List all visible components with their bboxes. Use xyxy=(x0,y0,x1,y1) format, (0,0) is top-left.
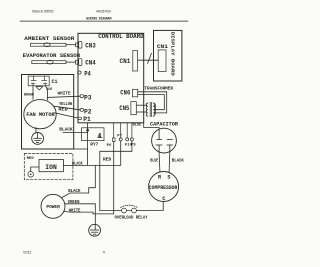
wire compressor C to overload relay xyxy=(136,202,163,211)
ION module xyxy=(39,160,63,172)
pin P3 xyxy=(80,95,84,98)
wire blue (c1) xyxy=(45,86,47,100)
svg-text:CN5: CN5 xyxy=(119,105,129,112)
svg-text:CN3: CN3 xyxy=(85,43,96,50)
wire CN6 loop to transformer secondary xyxy=(138,92,167,113)
board bottom pin P6 xyxy=(113,123,115,138)
evaporator sensor symbol xyxy=(32,61,66,64)
wire CN1 to display board xyxy=(138,59,159,61)
svg-text:RED: RED xyxy=(27,157,35,161)
control board box xyxy=(78,33,144,123)
svg-text:RED: RED xyxy=(103,156,111,162)
svg-text:BLACK: BLACK xyxy=(72,161,83,167)
connector CN3 xyxy=(76,43,78,47)
wire fan box bottom to relay stem xyxy=(74,148,88,150)
wire BLUE from CN5 to capacitor xyxy=(144,123,159,140)
relay RY7 box xyxy=(82,128,105,141)
ion generator dashed box xyxy=(24,154,73,180)
capacitor C2 xyxy=(152,128,177,153)
svg-text:FAM157R1A: FAM157R1A xyxy=(96,9,111,13)
svg-text:ION: ION xyxy=(45,164,57,171)
svg-text:02/12: 02/12 xyxy=(23,250,31,254)
svg-text:COMPRESSOR: COMPRESSOR xyxy=(149,185,178,191)
thermal protector triangle xyxy=(36,87,43,90)
pin P1 xyxy=(78,117,82,119)
svg-text:CN1: CN1 xyxy=(157,43,169,50)
svg-text:AMBIENT SENSOR: AMBIENT SENSOR xyxy=(24,35,75,42)
connector CN4 xyxy=(76,60,78,64)
svg-text:POWER: POWER xyxy=(46,204,59,210)
wire CN5 to transformer primary xyxy=(136,104,146,106)
svg-text:BLUE: BLUE xyxy=(133,121,142,127)
svg-text:GREEN: GREEN xyxy=(68,199,80,205)
svg-text:CN6: CN6 xyxy=(120,90,130,97)
wire yellow fan to P2 xyxy=(54,106,80,110)
board bottom pin P9 xyxy=(131,123,133,138)
svg-text:RED: RED xyxy=(58,106,67,112)
fan assembly box xyxy=(22,75,74,150)
svg-text:C1: C1 xyxy=(52,79,58,85)
pin P4 xyxy=(78,71,82,74)
svg-text:BLACK: BLACK xyxy=(172,158,184,164)
svg-text:CAPACITOR: CAPACITOR xyxy=(150,122,178,128)
svg-text:DISPLAY BOARD: DISPLAY BOARD xyxy=(169,32,175,76)
svg-text:CN4: CN4 xyxy=(85,60,96,67)
svg-text:PT: PT xyxy=(117,135,122,139)
wire red fan to P1 xyxy=(55,113,78,118)
svg-text:S: S xyxy=(167,174,170,180)
svg-text:RY7: RY7 xyxy=(90,142,98,147)
wire ambient to CN3 xyxy=(66,44,76,46)
svg-text:OVERLOAD RELAY: OVERLOAD RELAY xyxy=(115,215,148,221)
svg-text:CN1: CN1 xyxy=(120,58,131,65)
wire green power to ground xyxy=(65,204,95,225)
svg-text:WHITE: WHITE xyxy=(58,90,71,96)
wire P9 red to overload xyxy=(100,141,132,211)
wire ion out xyxy=(63,164,73,166)
svg-text:P1: P1 xyxy=(83,116,91,123)
svg-text:P6: P6 xyxy=(107,144,112,148)
wire capacitor to compressor S (BLACK) xyxy=(168,145,171,172)
wire capacitor to compressor R (BLUE) xyxy=(158,145,161,172)
power ground xyxy=(89,224,101,236)
svg-text:YELLOW: YELLOW xyxy=(59,101,72,107)
svg-text:FAN MOTOR: FAN MOTOR xyxy=(26,112,55,118)
capacitor C1 box xyxy=(28,76,49,86)
svg-text:BLACK: BLACK xyxy=(68,188,80,194)
wire white power to P6 xyxy=(64,141,114,214)
board bottom pin F10 xyxy=(126,123,128,138)
header rule xyxy=(20,20,188,22)
overload relay xyxy=(122,208,127,213)
svg-text:Publication No. 5995557529: Publication No. 5995557529 xyxy=(32,10,54,14)
wire black power xyxy=(62,165,96,197)
wire white fan to P3 xyxy=(47,96,80,97)
pin P2 xyxy=(80,109,84,112)
wire black fan to junction xyxy=(63,132,88,134)
relay arrow wire xyxy=(87,123,89,166)
ambient sensor symbol xyxy=(31,43,67,46)
svg-text:P4: P4 xyxy=(84,70,91,77)
svg-text:P3: P3 xyxy=(84,94,92,101)
svg-text:P2: P2 xyxy=(84,108,92,115)
svg-text:EVAPORATOR SENSOR: EVAPORATOR SENSOR xyxy=(23,52,81,59)
cable slash mark xyxy=(148,53,152,63)
wire evaporator to CN4 xyxy=(66,61,76,63)
svg-text:CONTROL BOARD: CONTROL BOARD xyxy=(98,33,144,40)
svg-text:4: 4 xyxy=(103,251,105,255)
power cord xyxy=(41,194,65,218)
svg-text:TRANSFORMER: TRANSFORMER xyxy=(144,86,173,92)
wire PT black bus xyxy=(73,141,121,166)
compressor xyxy=(149,172,179,202)
svg-text:BROWN: BROWN xyxy=(24,94,34,98)
display board box xyxy=(154,30,182,81)
wire brown xyxy=(32,86,34,100)
display board vertical label xyxy=(169,32,175,76)
svg-text:BLUE: BLUE xyxy=(150,158,158,164)
board bottom pin PT xyxy=(120,123,122,138)
fan motor ground xyxy=(35,128,37,133)
transformer T1 xyxy=(146,103,148,116)
svg-text:BLACK: BLACK xyxy=(59,126,72,132)
svg-text:BLUE: BLUE xyxy=(46,88,52,92)
fan motor xyxy=(24,100,56,129)
svg-text:WHITE: WHITE xyxy=(69,207,81,213)
wire ion electrode xyxy=(31,167,39,171)
